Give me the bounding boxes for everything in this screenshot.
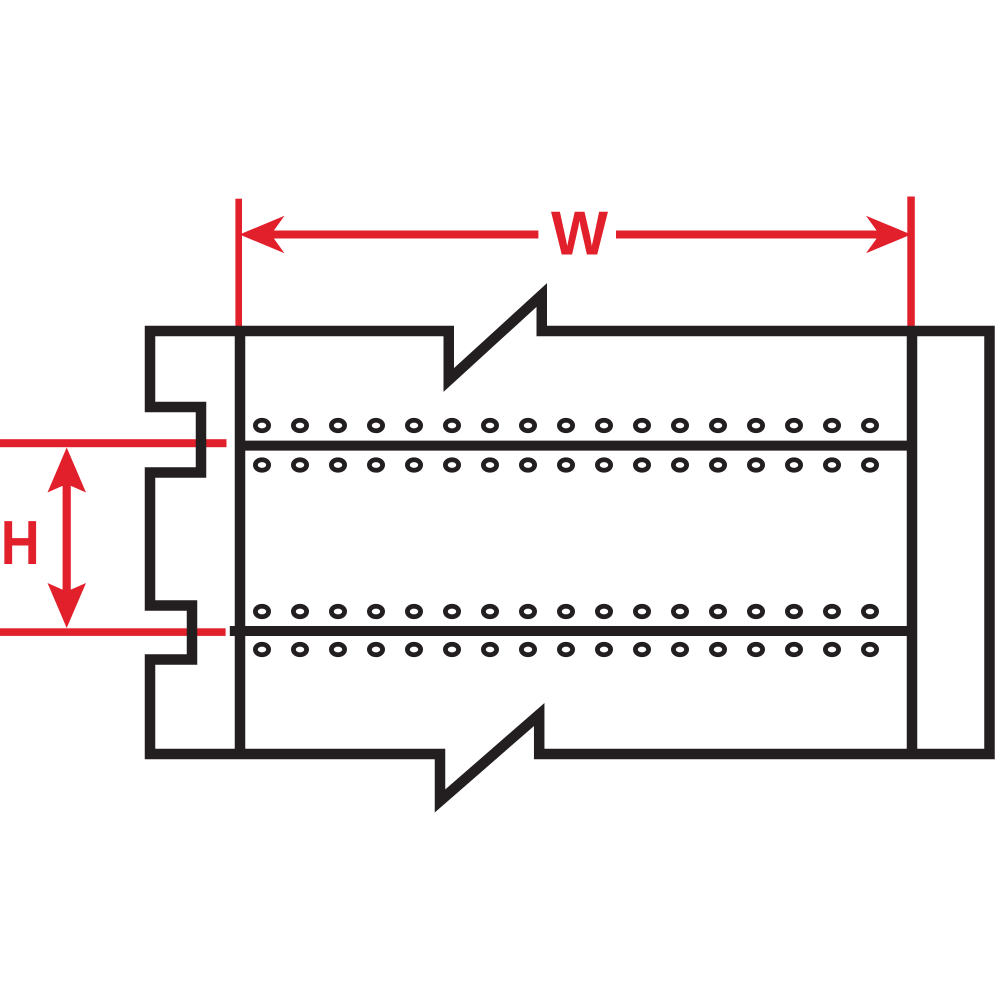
right liner edge vertical line — [907, 328, 918, 757]
label separation line bottom — [230, 626, 912, 636]
perforation row 2 — [255, 460, 876, 471]
dimension extension line H top (red, left) — [0, 439, 227, 447]
perforation row 1 — [255, 420, 876, 431]
dimension extension line W left (red vertical) — [235, 199, 242, 329]
W arrowhead right — [866, 216, 911, 254]
H arrow shaft — [63, 470, 71, 606]
svg-text:W: W — [551, 199, 608, 269]
W arrow shaft left segment — [266, 231, 538, 239]
H arrowhead bottom — [48, 583, 87, 628]
perforation row 4 — [255, 644, 876, 655]
W arrow shaft right segment — [616, 231, 884, 239]
label body outline with notched left edge and break lines — [150, 295, 990, 801]
H arrowhead top — [48, 448, 87, 493]
label separation line top — [240, 441, 912, 451]
svg-text:H: H — [1, 508, 40, 578]
left liner edge vertical line — [235, 328, 246, 757]
dimension extension line W right (red vertical) — [907, 197, 915, 329]
dimension extension line H bottom (red, left) — [0, 628, 226, 636]
W arrowhead left — [240, 216, 285, 254]
perforation row 3 — [255, 606, 876, 617]
